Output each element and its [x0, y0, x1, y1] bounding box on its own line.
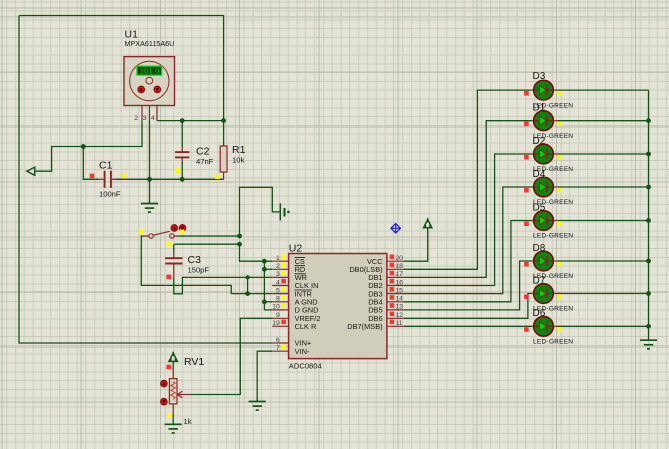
state square U2 pin 16	[390, 279, 395, 284]
wire: C3 top to net-A vertical	[175, 243, 240, 245]
svg-text:3: 3	[276, 271, 280, 278]
svg-text:11: 11	[395, 320, 402, 327]
U1 pin 3 stub	[149, 106, 151, 121]
value LED-GREEN D1	[533, 133, 573, 140]
U2 pin 14 DB4	[368, 296, 403, 307]
potentiometer RV1 body	[169, 379, 177, 404]
state square LED D4 anode (red)	[524, 188, 529, 193]
svg-text:LED-GREEN: LED-GREEN	[533, 233, 573, 240]
junction: rail at D4	[646, 185, 651, 190]
svg-text:47nF: 47nF	[196, 157, 214, 166]
label D1	[533, 103, 546, 114]
wire: WR-INTR tie vertical	[247, 277, 249, 293]
svg-text:R1: R1	[232, 144, 246, 156]
svg-text:1k: 1k	[184, 417, 192, 426]
svg-text:ADC0804: ADC0804	[289, 361, 322, 370]
svg-text:RV1: RV1	[184, 356, 204, 368]
svg-text:9: 9	[276, 312, 280, 319]
U1 up button	[138, 86, 145, 93]
junction: rail at D7	[646, 291, 651, 296]
LED D1	[532, 111, 558, 131]
U2 pin 7 VIN-	[272, 345, 310, 356]
RV1 bottom stub	[172, 404, 174, 416]
U2 pin 19 CLK R	[272, 320, 316, 331]
probe square C3 top (yellow)	[166, 242, 171, 247]
junction: C2 tap	[180, 118, 185, 123]
svg-text:DB7(MSB): DB7(MSB)	[347, 322, 382, 331]
wire: DB7 to LED D6	[404, 325, 532, 327]
value 100nF	[99, 189, 121, 198]
state square U2 pin 17	[390, 271, 395, 276]
svg-text:10k: 10k	[232, 155, 244, 164]
label D6	[533, 308, 546, 319]
U2 pin 17 DB1	[368, 271, 403, 282]
ground (sensor bus)	[141, 179, 158, 212]
label C3	[188, 254, 202, 266]
junction: WR tie	[246, 275, 250, 279]
probe square C3 bottom (red)	[166, 275, 171, 280]
RV1 up button	[161, 380, 168, 387]
U2 pin 5 INTR	[272, 287, 312, 298]
label RV1	[184, 356, 204, 368]
svg-text:D4: D4	[533, 169, 546, 180]
power arrow RV1	[169, 352, 177, 362]
state square U2 pin 1	[281, 255, 286, 260]
svg-text:C2: C2	[196, 145, 210, 157]
value 1k	[184, 417, 192, 426]
svg-text:16: 16	[395, 279, 403, 286]
LED D3	[532, 80, 558, 100]
LED D8	[532, 251, 558, 271]
state square LED D6 anode (red)	[524, 327, 529, 332]
svg-text:100nF: 100nF	[99, 189, 121, 198]
junction: INTR tie	[245, 291, 250, 296]
LED D7	[532, 284, 558, 304]
junction: net-A C3	[237, 242, 242, 247]
svg-text:D7: D7	[533, 275, 546, 286]
junction: rail at D8	[646, 259, 651, 264]
U1 vent circle	[146, 77, 153, 84]
svg-text:6: 6	[276, 337, 280, 344]
value ADC0804	[289, 361, 322, 370]
svg-text:D1: D1	[533, 103, 546, 114]
wire: tie to DGND	[264, 309, 272, 311]
svg-text:8: 8	[276, 296, 280, 303]
pressure sensor U1 body	[124, 57, 175, 106]
wire: LED D1 cathode to rail	[557, 120, 648, 122]
wire: LED D2 cathode to rail	[557, 153, 648, 155]
U1 pin numbers 2 3 4	[134, 115, 155, 122]
wire: switch left to INTR	[141, 236, 272, 294]
value LED-GREEN D2	[533, 166, 573, 173]
wire: LED D5 cathode to rail	[557, 220, 648, 222]
U2 pin 8 A GND	[272, 296, 317, 307]
svg-text:101.0: 101.0	[140, 67, 160, 76]
state square LED D7 anode (red)	[524, 294, 529, 299]
svg-text:3: 3	[143, 115, 147, 122]
battery	[280, 203, 289, 220]
label D2	[533, 136, 546, 147]
wire: sensor Vout net - top border run	[19, 16, 224, 121]
svg-text:5: 5	[276, 287, 280, 294]
RV1 top stub	[172, 362, 174, 379]
wire: VIN- to ground	[257, 351, 272, 401]
U2 pin 4 CLK IN	[272, 279, 318, 290]
svg-text:D5: D5	[533, 202, 546, 213]
junction: rail at D5	[646, 218, 651, 223]
wire: cathode rail	[648, 90, 650, 326]
svg-text:1: 1	[276, 255, 280, 262]
probe square C1 left (red)	[90, 174, 95, 179]
value LED-GREEN D3	[533, 102, 573, 109]
capacitor C1	[99, 171, 117, 188]
probe square RV1 top (red)	[166, 365, 171, 370]
state square U2 pin 15	[390, 287, 395, 292]
svg-text:4: 4	[151, 115, 155, 122]
state square LED D3 anode (red)	[524, 91, 529, 96]
U2 pin 15 DB3	[368, 287, 403, 298]
wire: sensor Vout net - left border down to VIN+	[19, 16, 272, 344]
svg-text:14: 14	[395, 296, 403, 303]
wire: C3 bottom detour to WR	[174, 277, 272, 293]
svg-text:13: 13	[395, 304, 403, 311]
state square U2 pin 5	[281, 287, 286, 292]
value LED-GREEN D4	[533, 199, 573, 206]
LED D6	[532, 316, 558, 336]
U2 pin 18 DB0(LSB)	[349, 263, 403, 274]
state square LED D8 cathode (yellow)	[557, 262, 562, 267]
junction: tie at CS	[262, 259, 267, 264]
svg-text:150pF: 150pF	[188, 265, 210, 274]
LED D2	[532, 144, 558, 164]
state square LED D5 anode (red)	[524, 221, 529, 226]
value 150pF	[188, 265, 210, 274]
label D5	[533, 202, 546, 213]
label D7	[533, 275, 546, 286]
label R1	[232, 144, 246, 156]
svg-text:18: 18	[395, 263, 403, 270]
wire: DB5 to LED D8	[404, 261, 532, 310]
probe square C1 right (yellow)	[122, 174, 127, 179]
state square LED D5 cathode (yellow)	[557, 221, 562, 226]
wire: VCC to power rail	[404, 228, 428, 261]
svg-text:10: 10	[272, 304, 280, 311]
ground (VIN-)	[249, 399, 266, 410]
state square U2 pin 11	[390, 320, 395, 325]
U2 pin 1 CS	[272, 255, 305, 266]
state square LED D7 cathode (yellow)	[557, 294, 562, 299]
wire: GND bus	[116, 178, 224, 180]
label D4	[533, 169, 546, 180]
svg-text:VIN-: VIN-	[295, 347, 310, 356]
label C2	[196, 145, 210, 157]
junction: C2 at bus	[180, 177, 185, 182]
wire: tie to AGND	[264, 301, 272, 303]
resistor R1	[220, 121, 227, 180]
state square LED D1 anode (red)	[524, 122, 529, 127]
value LED-GREEN D7	[533, 306, 573, 313]
wire: C1 branch drop	[83, 147, 98, 180]
RV1 down button	[161, 398, 168, 405]
value 47nF	[196, 157, 214, 166]
svg-text:19: 19	[272, 320, 280, 327]
svg-text:4: 4	[276, 279, 280, 286]
switch up button	[171, 225, 178, 232]
op-amp U2 ADC0804 body	[289, 254, 387, 359]
junction: net-A switch	[237, 234, 242, 239]
junction: tie at RD	[262, 267, 267, 272]
state square U2 pin 3	[281, 271, 286, 276]
svg-text:C3: C3	[188, 254, 202, 266]
svg-text:LED-GREEN: LED-GREEN	[533, 339, 573, 346]
wire: tie to RD	[264, 268, 272, 270]
ground (rail)	[640, 326, 657, 349]
state square LED D4 cathode (yellow)	[557, 188, 562, 193]
svg-text:D6: D6	[533, 308, 546, 319]
value 10k	[232, 155, 244, 164]
probe square switch left (yellow)	[139, 230, 144, 235]
junction: rail at D2	[646, 152, 651, 157]
state square LED D2 cathode (yellow)	[557, 155, 562, 160]
U1 pressure display	[137, 66, 162, 76]
svg-text:20: 20	[395, 255, 403, 262]
label C1	[99, 159, 113, 171]
state square U2 pin 4	[281, 279, 286, 284]
junction: R1 top	[221, 118, 226, 123]
U2 pin 11 DB7(MSB)	[347, 320, 403, 331]
power arrow VCC	[424, 218, 432, 228]
state square U2 pin 8	[281, 295, 286, 300]
wire: DB4 to LED D5	[404, 221, 532, 302]
U1 down button	[154, 86, 161, 93]
U1 pin 4 stub	[156, 106, 158, 121]
U2 pin 13 DB5	[368, 304, 403, 315]
label U2	[289, 243, 303, 255]
wire: C2 top drop	[181, 121, 183, 148]
switch down button	[179, 225, 186, 232]
label D8	[533, 243, 546, 254]
state square LED D6 cathode (yellow)	[557, 327, 562, 332]
wire: DB6 to LED D7	[404, 294, 532, 319]
svg-text:2: 2	[276, 263, 280, 270]
wire: +5V from pin2	[35, 121, 142, 172]
wire: LED D3 cathode to rail	[557, 89, 648, 91]
svg-text:D2: D2	[533, 136, 546, 147]
wire: switch right to net-A vertical	[177, 235, 240, 237]
svg-text:CLK R: CLK R	[295, 322, 317, 331]
junction: rail at D6	[646, 324, 651, 329]
value LED-GREEN D5	[533, 233, 573, 240]
wire: LED D8 cathode to rail	[557, 260, 648, 262]
U2 pin 9 VREF/2	[272, 312, 320, 323]
svg-text:12: 12	[395, 312, 403, 319]
state square U2 pin 13	[390, 303, 395, 308]
junction: pin3 at bus	[147, 177, 152, 182]
U2 pin 6 VIN+	[272, 337, 311, 348]
ground (RV1)	[165, 415, 182, 433]
svg-text:15: 15	[395, 287, 403, 294]
value MPXA6115A6U	[125, 39, 175, 48]
state square LED D8 anode (red)	[524, 262, 529, 267]
wire: C2 bottom to bus	[181, 162, 183, 179]
value LED-GREEN D8	[533, 273, 573, 280]
label U1	[125, 29, 139, 41]
wire: DB1 to LED D1	[404, 121, 532, 278]
probe square RV1 bottom (yellow)	[167, 413, 172, 418]
state square U2 pin 14	[390, 295, 395, 300]
switch terminals	[143, 231, 177, 238]
capacitor C2	[175, 148, 189, 164]
state square U2 pin 2	[281, 263, 286, 268]
state square U2 pin 20	[390, 255, 395, 260]
wire: pin3 GND drop	[149, 121, 151, 180]
wire: LED D7 cathode to rail	[557, 293, 648, 295]
svg-text:MPXA6115A6U: MPXA6115A6U	[125, 39, 175, 48]
U2 pin 2 RD	[272, 263, 305, 274]
svg-text:D8: D8	[533, 243, 546, 254]
wire: RV1 wiper to VREF/2	[192, 318, 273, 394]
svg-text:17: 17	[395, 271, 403, 278]
U2 pin 10 D GND	[272, 304, 318, 315]
state square U2 pin 19	[281, 320, 286, 325]
state square LED D1 cathode (yellow)	[557, 121, 562, 126]
wire: pin4 Vout to R1 top	[157, 120, 224, 122]
wire: CS-RD-AGND-DGND tie vertical	[263, 261, 265, 310]
svg-text:2: 2	[134, 115, 138, 122]
LED D5	[532, 211, 558, 231]
state square LED D2 anode (red)	[524, 155, 529, 160]
U2 pin 20 VCC	[367, 255, 404, 266]
probe square R1 bottom (yellow)	[215, 174, 220, 179]
U2 pin 12 DB6	[368, 312, 403, 323]
probe square C2 bottom (yellow)	[176, 168, 181, 173]
U1 pin 2 stub	[141, 106, 143, 121]
state square U2 pin 12	[390, 312, 395, 317]
wire: net-A vertical down to CS	[240, 244, 273, 261]
wire: net-A vertical to battery	[240, 187, 280, 236]
state square LED D3 cathode (yellow)	[557, 91, 562, 96]
junction: tie at AGND	[262, 299, 267, 304]
junction: C1 branch	[81, 144, 86, 149]
RV1 wiper arrow	[177, 391, 191, 398]
LED D4	[532, 177, 558, 197]
probe square switch right (yellow)	[180, 230, 185, 235]
wire: DB0 to LED D3	[404, 90, 532, 269]
label D3	[533, 71, 546, 82]
state square U2 pin 10	[281, 303, 286, 308]
origin marker (blue)	[391, 224, 400, 233]
U2 pin 16 DB2	[368, 279, 403, 290]
state square U2 pin 7	[281, 345, 286, 350]
svg-text:D3: D3	[533, 71, 546, 82]
U2 pin 3 WR	[272, 271, 307, 282]
capacitor C3	[165, 244, 182, 277]
wire: DB2 to LED D2	[404, 154, 532, 286]
svg-text:7: 7	[276, 345, 280, 352]
svg-text:C1: C1	[99, 159, 113, 171]
junction: rail at D1	[646, 118, 651, 123]
wire: DB3 to LED D4	[404, 187, 532, 294]
wire: LED D6 cathode to rail	[557, 325, 648, 327]
wire: LED D4 cathode to rail	[557, 186, 648, 188]
value LED-GREEN D6	[533, 339, 573, 346]
input terminal arrow	[27, 167, 35, 175]
svg-text:U2: U2	[289, 243, 303, 255]
state square U2 pin 18	[390, 263, 395, 268]
